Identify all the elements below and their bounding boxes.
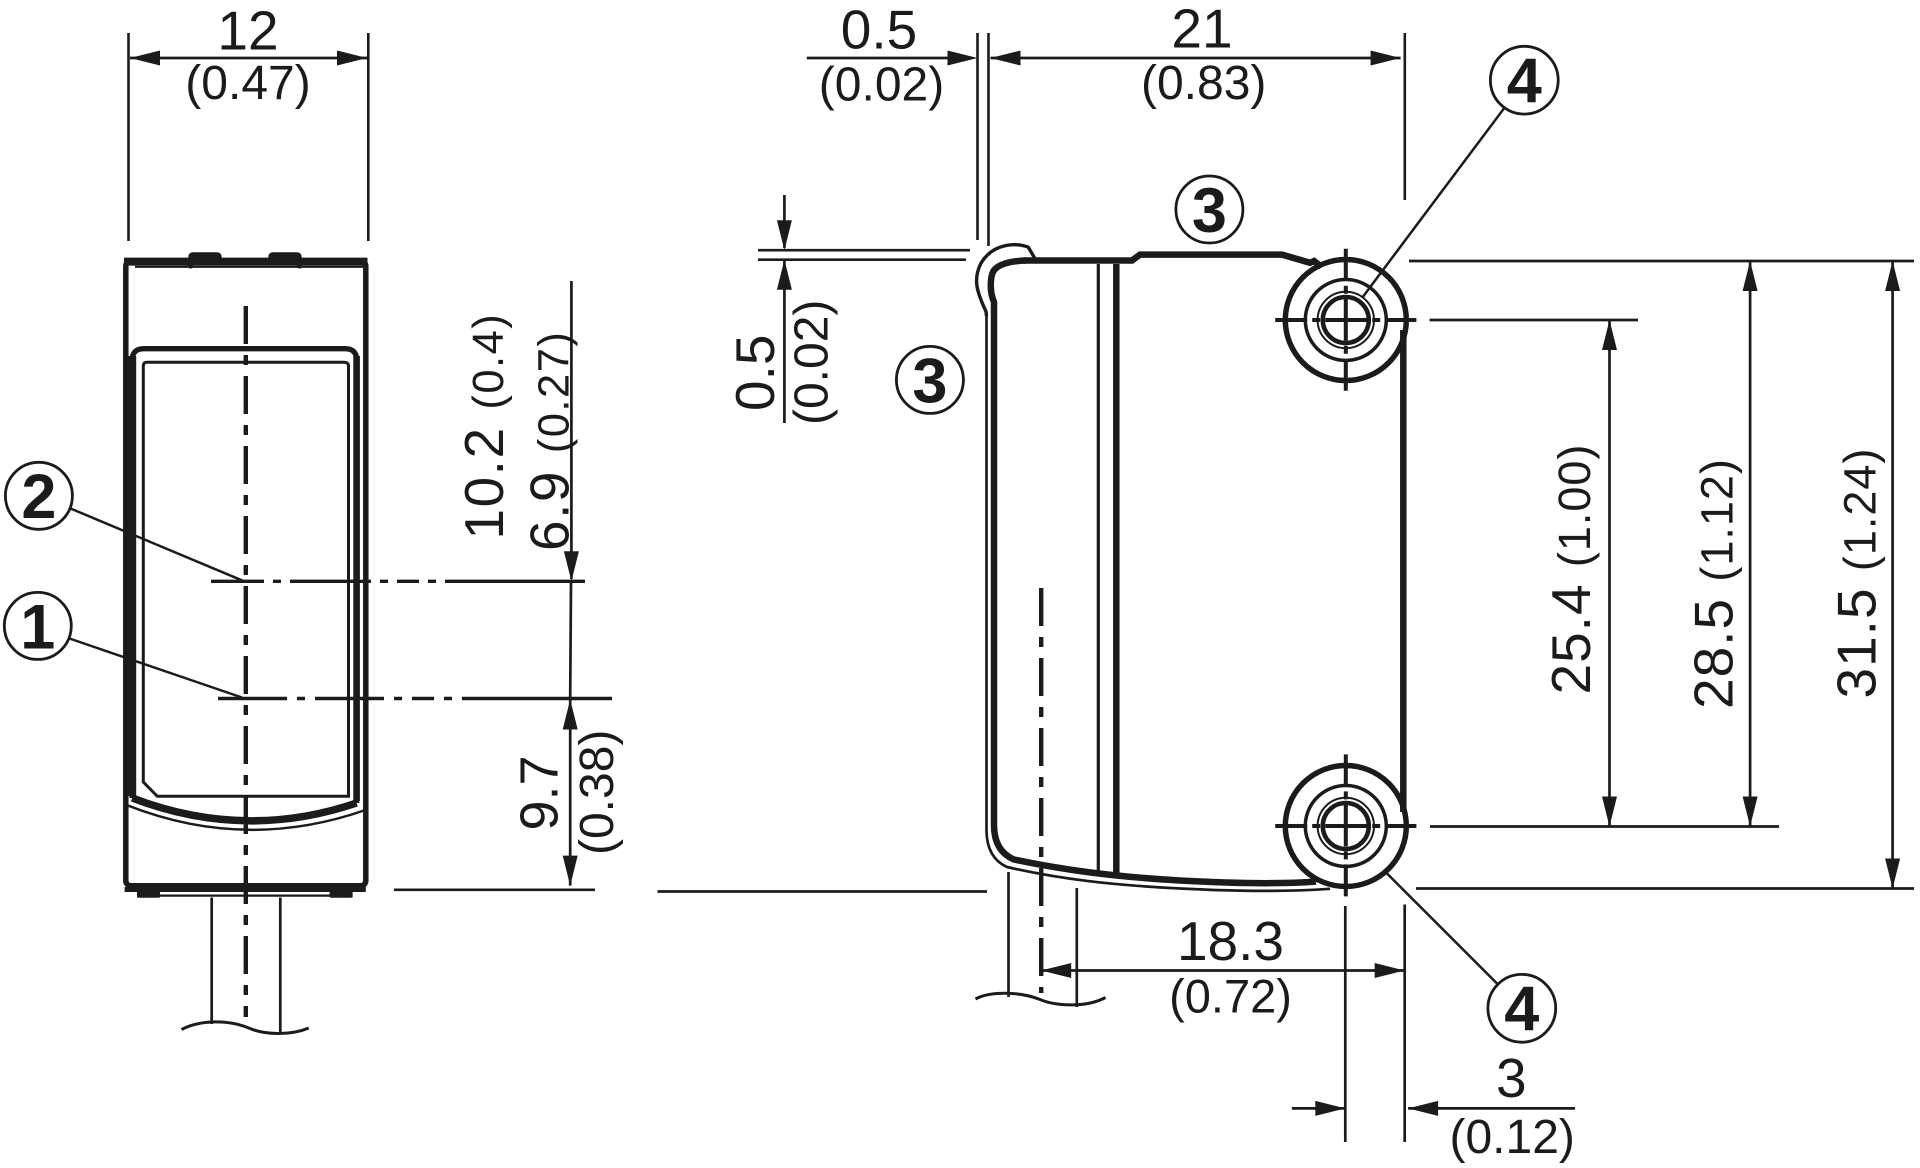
- svg-text:(0.02): (0.02): [819, 59, 944, 112]
- front view inner top edge line: [135, 266, 363, 268]
- side view left thin contour: [987, 312, 1331, 891]
- callout 4 bottom: [1384, 871, 1556, 1045]
- front view bottom edge: [125, 887, 366, 892]
- crosshair top hole: [1275, 249, 1416, 391]
- svg-text:4: 4: [1507, 47, 1542, 117]
- front view body outline: [124, 261, 368, 886]
- svg-text:31.5 (1.24): 31.5 (1.24): [1826, 448, 1888, 699]
- top-left lip (ear): [977, 245, 1035, 316]
- front view centerline (dash-dot): [244, 306, 248, 1017]
- dimension 10.2 (0.4) / 6.9 (0.27): [453, 281, 581, 697]
- svg-text:9.7: 9.7: [510, 755, 570, 830]
- crosshair bottom hole: [1275, 754, 1416, 896]
- lens window: [143, 362, 348, 796]
- dimension 28.5 (1.12): [1683, 261, 1758, 827]
- svg-text:(0.47): (0.47): [185, 57, 310, 110]
- dimension 21 (0.83): [991, 0, 1405, 200]
- callout 3 top: [1176, 176, 1243, 246]
- extension lines right side: [1409, 261, 1914, 889]
- callout 2: [5, 462, 243, 581]
- svg-text:2: 2: [21, 462, 56, 532]
- svg-text:(0.12): (0.12): [1450, 1111, 1575, 1164]
- side view body outline: [991, 255, 1404, 884]
- svg-text:12: 12: [217, 0, 278, 62]
- svg-text:(0.38): (0.38): [571, 730, 624, 855]
- front plate lines (side view): [1098, 264, 1116, 876]
- optical axis line 1 (dash-dot): [218, 697, 612, 700]
- lens housing: [132, 349, 356, 821]
- svg-text:28.5 (1.12): 28.5 (1.12): [1683, 458, 1745, 709]
- callout 1: [4, 592, 242, 697]
- dimension 18.3 (0.72): [1041, 910, 1405, 1023]
- callout 4 top: [1362, 46, 1558, 298]
- dimension 0.5 (0.02) left side: [724, 195, 970, 425]
- bottom extension line (front view): [394, 888, 595, 891]
- svg-text:25.4 (1.00): 25.4 (1.00): [1540, 444, 1602, 695]
- optical axis line 2 (dash-dot): [211, 580, 588, 583]
- extension lines bottom right: [1345, 905, 1404, 1143]
- svg-text:0.5: 0.5: [841, 0, 917, 61]
- cable (side view): [1009, 872, 1077, 1007]
- callout 3 left: [896, 346, 963, 416]
- svg-text:1: 1: [20, 592, 55, 662]
- cable break line (front view): [182, 1022, 309, 1034]
- svg-text:(0.02): (0.02): [786, 300, 839, 425]
- top tab left: [188, 252, 222, 268]
- cable (front view): [212, 898, 281, 1033]
- dimension 0.5 (0.02) top: [807, 0, 989, 246]
- svg-text:21: 21: [1171, 0, 1232, 60]
- dimension 25.4 (1.00): [1540, 320, 1617, 827]
- mounting hole boss bottom: [1285, 766, 1406, 887]
- svg-text:(0.83): (0.83): [1141, 57, 1266, 110]
- dimension 9.7 (0.38): [510, 700, 625, 886]
- dimension 12 (0.47): [129, 0, 369, 241]
- svg-text:0.5: 0.5: [724, 335, 786, 411]
- top tab right: [268, 252, 302, 268]
- svg-text:18.3: 18.3: [1177, 910, 1284, 972]
- svg-text:3: 3: [912, 346, 947, 416]
- svg-text:4: 4: [1504, 975, 1539, 1045]
- front view foot line: [137, 892, 353, 898]
- dimension 31.5 (1.24): [1826, 261, 1901, 889]
- bottom reference line between views: [658, 890, 988, 893]
- mounting hole boss top: [1285, 260, 1406, 381]
- lens bottom thin contour: [127, 805, 366, 830]
- svg-text:3: 3: [1496, 1047, 1527, 1109]
- dimension 3 (0.12): [1292, 1047, 1575, 1164]
- cable break line (side view): [976, 993, 1106, 1005]
- svg-text:3: 3: [1192, 176, 1227, 246]
- cable axis (side view, dash-dot): [1039, 588, 1043, 993]
- svg-text:(0.72): (0.72): [1169, 970, 1292, 1023]
